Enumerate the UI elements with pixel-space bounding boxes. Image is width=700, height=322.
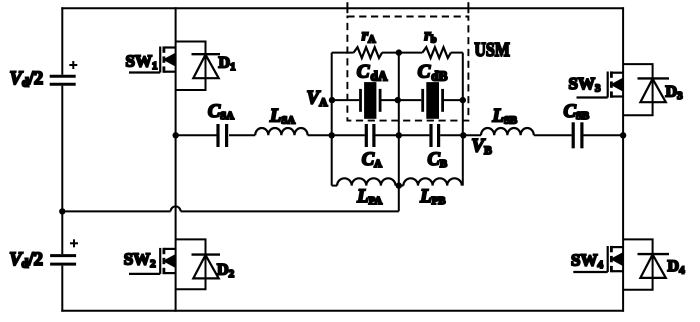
wire CSA to LSA: [229, 134, 255, 136]
wire resistor row left lead: [332, 52, 354, 54]
inductor LPA: [337, 178, 395, 185]
tick mark left on top bus: [346, 2, 348, 13]
svg-text:LPB: LPB: [419, 187, 445, 207]
transistor SW4 branch box: [623, 239, 653, 289]
wire rb to inner right vertical: [451, 52, 463, 54]
node center on main wire: [396, 132, 402, 138]
transistor SW1 branch box: [176, 42, 206, 91]
wire phase leg A: [175, 7, 177, 311]
wire hop over phase leg A: [171, 206, 181, 211]
wire CA to center node: [376, 134, 399, 136]
capacitor Vd/2 upper polarity plus: [69, 61, 77, 69]
wire CSB to right rail: [584, 134, 624, 136]
piezo element CdA plates: [361, 89, 381, 112]
svg-text:CdA: CdA: [357, 62, 388, 84]
wire center node to rb: [399, 52, 423, 54]
wire LSB to CSB: [534, 134, 572, 136]
resistor rA: [354, 47, 383, 58]
wire center node to CB: [399, 134, 430, 136]
capacitor CB: [431, 124, 439, 147]
wire piezo B to VB vertical: [443, 99, 463, 101]
resistor rb: [422, 47, 451, 58]
svg-text:SW2: SW2: [124, 250, 156, 271]
piezo element CdA body: [364, 82, 376, 119]
node piezo row center: [395, 97, 401, 103]
capacitor Vd/2 lower plates: [50, 256, 76, 265]
transistor SW1 mosfet: [129, 46, 176, 72]
capacitor CA: [366, 124, 374, 147]
transistor SW2 mosfet: [129, 248, 176, 274]
svg-text:CdB: CdB: [418, 62, 448, 84]
wire inner center vertical: [398, 53, 400, 212]
svg-text:USM: USM: [474, 40, 510, 61]
node VB: [460, 132, 466, 138]
diode D1: [192, 54, 221, 78]
svg-text:Vd/2: Vd/2: [10, 69, 44, 90]
wire rA to center node: [382, 52, 399, 54]
svg-text:CSB: CSB: [564, 102, 590, 122]
node resistor row center: [396, 49, 402, 55]
wire left rail upper: [61, 7, 63, 75]
diode D3: [638, 78, 670, 102]
svg-text:SW1: SW1: [126, 52, 158, 73]
node piezo row right: [460, 97, 466, 103]
wire left rail lower: [61, 266, 63, 312]
piezo element CdB body: [426, 82, 439, 119]
diode D4: [638, 254, 670, 278]
svg-text:VA: VA: [307, 87, 329, 109]
transistor SW4 mosfet: [573, 246, 623, 272]
svg-text:LSA: LSA: [269, 107, 295, 127]
node midpoint B: [620, 132, 626, 138]
wire top bus: [61, 7, 624, 9]
node on left rail: [59, 208, 65, 214]
inductor LPB: [403, 178, 461, 185]
node LP center: [396, 182, 402, 188]
svg-text:rb: rb: [424, 27, 436, 45]
svg-text:CB: CB: [428, 150, 448, 170]
svg-text:SW3: SW3: [569, 74, 601, 95]
svg-text:D2: D2: [217, 262, 235, 281]
svg-text:rA: rA: [362, 27, 376, 45]
wire LSA to node A: [308, 134, 332, 136]
wire node A to CA: [332, 134, 365, 136]
transistor SW3 mosfet: [577, 71, 624, 97]
wire CB to node VB: [440, 134, 463, 136]
node A on main wire: [329, 132, 335, 138]
wire VB to LSB: [463, 134, 481, 136]
wire midpoint A to CSA: [176, 134, 218, 136]
node midpoint A: [173, 132, 179, 138]
wire midpoint return left segment: [62, 210, 170, 212]
svg-text:SW4: SW4: [571, 251, 603, 272]
piezo element CdB plates: [423, 89, 443, 112]
wire piezo A to center: [380, 99, 398, 101]
transistor SW2 branch box: [176, 239, 206, 289]
svg-text:Vd/2: Vd/2: [9, 250, 43, 271]
wire VA to piezo A: [332, 99, 359, 101]
svg-text:CA: CA: [362, 150, 382, 170]
capacitor CSA: [218, 124, 227, 147]
svg-text:VB: VB: [471, 136, 492, 158]
wire center to piezo B: [398, 99, 422, 101]
wire right rail / phase leg B: [622, 7, 624, 311]
capacitor CSB: [573, 122, 582, 148]
wire midpoint return right segment: [181, 210, 399, 212]
dashed box USM: [347, 17, 468, 121]
svg-text:LPA: LPA: [356, 187, 382, 207]
wire left rail middle: [61, 86, 63, 254]
tick mark right on top bus: [467, 2, 469, 13]
svg-text:LSB: LSB: [492, 107, 518, 127]
svg-text:D3: D3: [666, 84, 684, 103]
diode D2: [192, 255, 221, 279]
svg-text:D1: D1: [219, 55, 236, 74]
wire LPA left vertical lead: [332, 185, 337, 187]
capacitor Vd/2 lower polarity plus: [70, 239, 78, 247]
inductor LSB: [481, 128, 534, 135]
wire inner right vertical: [462, 53, 464, 186]
svg-text:D4: D4: [668, 258, 686, 277]
svg-text:CSA: CSA: [208, 102, 234, 122]
node VA: [329, 97, 335, 103]
transistor SW3 branch box: [623, 64, 653, 115]
capacitor Vd/2 upper plates: [50, 76, 76, 84]
wire inner left vertical: [331, 53, 333, 186]
wire node to LPB: [399, 185, 404, 187]
inductor LSA: [255, 128, 307, 135]
wire bottom bus: [61, 310, 624, 312]
